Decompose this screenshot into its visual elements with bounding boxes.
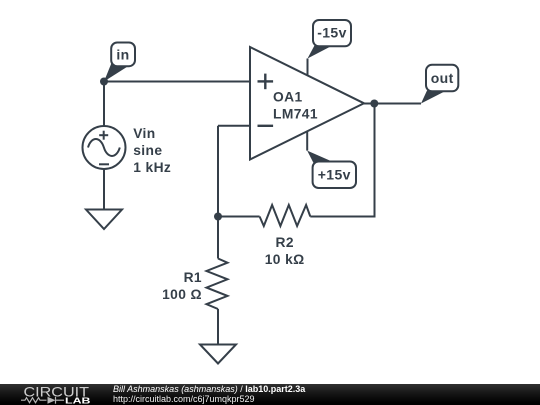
voltage source Vin [83, 126, 126, 169]
node dot at output [370, 100, 378, 108]
ground (below R1) [200, 345, 236, 364]
wire R1 to ground [217, 309, 219, 345]
node dot at in [100, 78, 108, 86]
wire feedback left to node [218, 216, 260, 218]
ground (below Vin) [86, 210, 122, 230]
label Vin value [133, 126, 171, 175]
svg-text:sine: sine [133, 143, 162, 158]
svg-text:100 Ω: 100 Ω [162, 287, 202, 302]
wire feedback vertical [310, 104, 374, 217]
resistor R1 [207, 259, 228, 310]
wire node to R1 [217, 217, 219, 259]
svg-text:LM741: LM741 [273, 107, 318, 122]
op-amp OA1 LM741 [250, 47, 364, 160]
svg-text:out: out [431, 70, 454, 86]
svg-text:R1: R1 [184, 270, 202, 285]
label R1 value [162, 270, 202, 302]
svg-text:10 kΩ: 10 kΩ [265, 252, 305, 267]
node dot feedback junction [214, 213, 222, 221]
wire Vin bottom to ground [103, 169, 105, 210]
wire minus input horizontal [218, 125, 250, 127]
node out flag [421, 65, 458, 104]
op-amp power stub bottom [306, 131, 308, 151]
wire in node to op-amp plus input [104, 81, 250, 83]
svg-text:in: in [116, 47, 129, 63]
node -15v flag [308, 20, 352, 59]
node +15v flag [307, 151, 356, 188]
svg-text:+15v: +15v [318, 167, 351, 183]
svg-text:OA1: OA1 [273, 90, 303, 105]
svg-text:LAB: LAB [65, 396, 91, 405]
label R2 value [265, 235, 305, 267]
wire output from apex [363, 103, 421, 105]
resistor R2 [260, 205, 311, 226]
node in flag [104, 43, 135, 82]
svg-text:-15v: -15v [317, 25, 347, 41]
svg-text:R2: R2 [275, 235, 293, 250]
wire minus input vertical to feedback node [217, 126, 219, 217]
wire in node down to Vin source [103, 82, 105, 127]
svg-text:Vin: Vin [133, 126, 155, 141]
footer bar [0, 384, 540, 405]
op-amp power stub top [307, 59, 309, 76]
svg-text:1 kHz: 1 kHz [133, 160, 171, 175]
